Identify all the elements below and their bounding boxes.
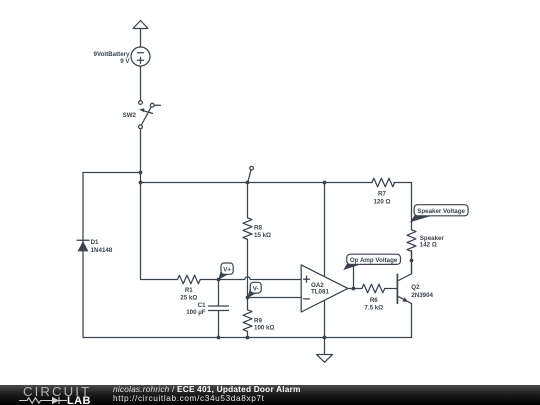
svg-text:V+: V+ <box>223 266 231 273</box>
svg-text:V-: V- <box>253 286 259 293</box>
svg-text:R1: R1 <box>185 287 193 294</box>
svg-text:120 Ω: 120 Ω <box>373 198 390 205</box>
svg-text:15 kΩ: 15 kΩ <box>254 232 271 239</box>
svg-text:Q2: Q2 <box>411 284 420 291</box>
svg-text:Op Amp Voltage: Op Amp Voltage <box>350 257 398 264</box>
svg-text:R7: R7 <box>378 191 386 198</box>
svg-text:C1: C1 <box>198 302 206 309</box>
svg-text:100 kΩ: 100 kΩ <box>254 325 274 332</box>
svg-text:TL081: TL081 <box>311 288 329 295</box>
svg-text:D1: D1 <box>91 239 99 246</box>
svg-text:SW2: SW2 <box>123 112 137 119</box>
svg-text:2N3904: 2N3904 <box>411 292 433 299</box>
svg-text:9 V: 9 V <box>120 58 130 65</box>
svg-text:25 kΩ: 25 kΩ <box>180 294 197 301</box>
svg-text:142 Ω: 142 Ω <box>420 242 437 249</box>
svg-text:Speaker Voltage: Speaker Voltage <box>417 208 465 215</box>
svg-text:R8: R8 <box>254 224 262 231</box>
svg-text:R6: R6 <box>370 297 378 304</box>
svg-text:7.5 kΩ: 7.5 kΩ <box>364 304 383 311</box>
svg-text:100 µF: 100 µF <box>186 309 206 316</box>
svg-text:R9: R9 <box>254 317 262 324</box>
svg-text:1N4148: 1N4148 <box>91 247 113 254</box>
